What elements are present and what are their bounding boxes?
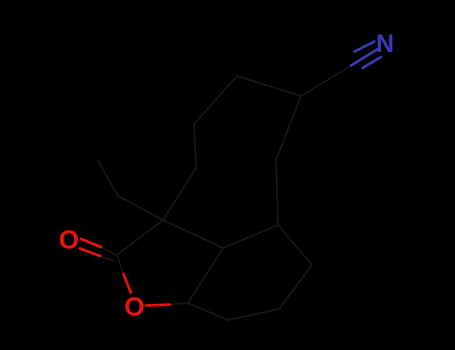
wire: bond A-B [237, 76, 301, 96]
triple bond flank upper-left [355, 42, 375, 52]
wire: bond X-C2 [117, 220, 163, 255]
carbonyl double bond C2=O red lines [81, 239, 101, 247]
wire: bond X-V2 [163, 220, 223, 248]
svg-text:O: O [124, 292, 144, 322]
bond O1-V1 red part [146, 305, 170, 306]
wire: bond A-W [276, 96, 301, 160]
triple bond C#N center line [351, 50, 377, 66]
wire: bond V6-V1 [188, 303, 228, 320]
svg-text:N: N [376, 30, 394, 58]
wire: bond X-Z [118, 196, 163, 220]
wire: bond W-V3 vertical [276, 160, 278, 225]
wire: bond Z-Zup [98, 161, 118, 196]
wire: gray stub C2 to O1 upper part [117, 255, 124, 274]
wire: bond B-P [194, 76, 237, 124]
wire: bond V2-V3 [223, 225, 278, 248]
wire: bond P-M vertical [194, 124, 196, 168]
bond C2-O1 red part [124, 274, 131, 293]
wire: bond V1-V2 [188, 248, 223, 303]
triple bond flank lower-right [363, 57, 382, 68]
wire: gray part of O1-V1 bond [170, 303, 188, 305]
wire: bond M-X [163, 168, 196, 220]
wire: chain bond nitrile C to CH2 A [301, 65, 352, 96]
svg-text:O: O [59, 225, 79, 255]
wire: bond V4-V5 [279, 265, 312, 309]
wire: bond V3-V4 [278, 225, 312, 265]
wire: gray stub carbonyl C toward double bond O [101, 247, 117, 255]
wire: bond V5-V6 [228, 309, 279, 320]
